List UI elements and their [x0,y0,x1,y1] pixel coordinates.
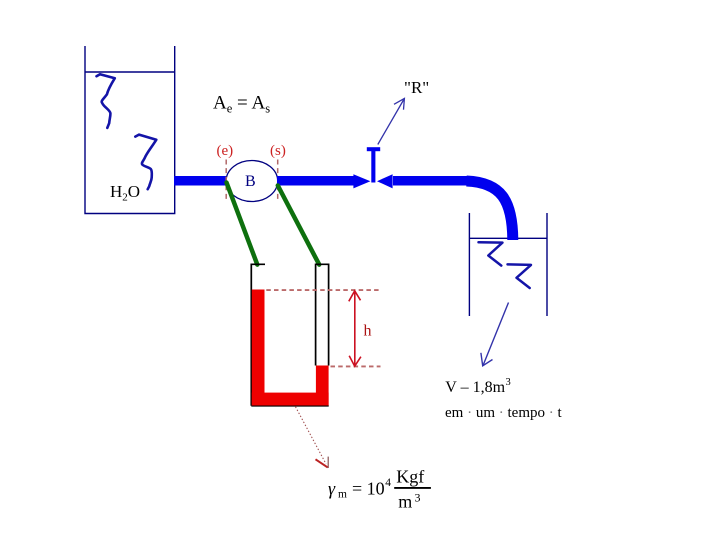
svg-text:Kgf: Kgf [396,467,424,487]
node (e) dashed line [225,160,227,203]
svg-text:4: 4 [385,477,391,489]
water squiggle B (left tank) [135,135,156,190]
svg-text:m: m [398,492,412,512]
annotation arrowhead for R [394,98,404,109]
manometer fluid bottom bend [252,393,329,406]
water squiggle D (right tank) [508,264,532,288]
fraction bar [394,487,431,489]
left tank water surface line [85,71,175,73]
water squiggle A (left tank) [97,74,115,128]
svg-text:V – 1,8m: V – 1,8m [445,379,505,396]
dotted leader from manometer to gamma formula [296,407,327,464]
manometer fluid right column [316,366,329,406]
svg-text:B: B [245,173,256,190]
h dimension arrow line [354,291,356,366]
h dimension arrowhead top [349,291,361,302]
green tap line from (s) to manometer right tube [278,186,319,265]
valve R stem [371,149,375,183]
h dimension arrowhead bottom [349,356,361,367]
valve R handle bar [367,147,380,151]
manometer fluid left column [252,290,265,406]
manometer bottom outline [251,405,328,407]
pipe elbow curve down to right tank [467,181,513,240]
pump B ellipse [226,161,278,202]
flow arrowhead left of valve [353,174,370,188]
manometer right tube outline [316,264,329,365]
svg-text:= 10: = 10 [352,479,385,499]
node (s) dashed line [277,160,279,203]
svg-text:3: 3 [415,490,421,504]
manometer left tube outline [251,264,265,406]
pipe segment tank to pump [174,176,228,186]
pipe segment pump to valve [277,176,355,186]
green tap line from (e) to manometer left tube [227,183,258,265]
dashed level line upper [266,289,380,291]
annotation arrow from right tank to V text [483,303,509,366]
right tank right wall [546,213,548,316]
svg-text:(s): (s) [270,143,286,159]
annotation arrow to valve label R [378,100,404,145]
svg-text:m: m [338,489,347,501]
left reservoir tank outline [85,46,175,214]
leader arrowhead [316,459,328,467]
right tank left wall [468,213,470,316]
svg-text:H2O: H2O [110,182,140,204]
svg-text:em · um · tempo · t: em · um · tempo · t [445,405,563,421]
water squiggle C (right tank) [479,242,503,265]
flow arrowhead right of valve [377,174,393,188]
svg-text:γ: γ [328,479,336,499]
dashed level line lower [331,365,381,367]
annotation arrowhead for V [481,353,493,366]
svg-text:Ae = As: Ae = As [213,93,270,116]
pipe segment valve to elbow [393,176,468,186]
svg-text:"R": "R" [404,78,429,97]
svg-text:h: h [364,323,372,340]
svg-text:3: 3 [506,377,511,388]
right tank water surface line [469,237,547,239]
svg-text:(e): (e) [217,143,234,159]
